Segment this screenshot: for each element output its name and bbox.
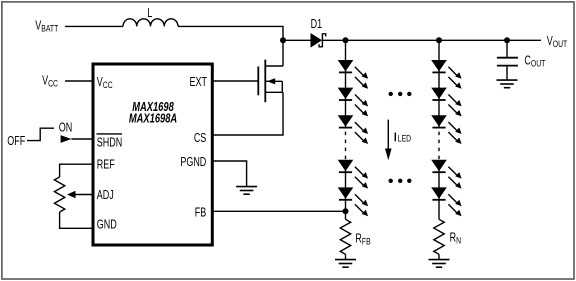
LED D3 bbox=[338, 88, 368, 117]
svg-text:MAX1698A: MAX1698A bbox=[129, 112, 177, 126]
resistor RFB bbox=[340, 219, 350, 254]
wire EXT to gate bbox=[213, 80, 258, 82]
IC U1 MAX1698 box bbox=[93, 64, 212, 245]
resistor RN bbox=[434, 219, 444, 254]
label ILED bbox=[394, 133, 396, 142]
arrow ILED bbox=[387, 120, 389, 151]
wire GND to potentiometer bbox=[60, 212, 92, 228]
wire ADJ wiper bbox=[75, 194, 93, 196]
LED D6 bbox=[338, 187, 368, 216]
svg-text:VCC: VCC bbox=[42, 74, 58, 89]
LED D9 bbox=[431, 115, 461, 144]
wire RFB to ground bbox=[345, 254, 347, 259]
wire RN to ground bbox=[438, 254, 440, 259]
LED D2 bbox=[338, 60, 368, 89]
transistor Q1 NMOS bbox=[257, 67, 259, 96]
ground string 1 bbox=[335, 260, 356, 268]
svg-text:CS: CS bbox=[194, 132, 206, 146]
node dot COUT junction bbox=[504, 37, 510, 43]
wire LED string 1 upper bbox=[345, 40, 347, 128]
svg-text:ON: ON bbox=[59, 121, 72, 135]
svg-text:VCC: VCC bbox=[97, 76, 113, 91]
LED D5 bbox=[338, 160, 368, 189]
dots upper ellipsis bbox=[389, 92, 393, 96]
ground string 2 bbox=[429, 260, 450, 268]
capacitor COUT bbox=[506, 40, 508, 57]
svg-text:VOUT: VOUT bbox=[547, 35, 567, 49]
svg-text:L: L bbox=[147, 7, 152, 21]
wire FB to LED string bbox=[213, 210, 346, 212]
ground COUT bbox=[497, 80, 518, 88]
node dot LED string 1 top bbox=[343, 37, 349, 43]
LED D4 bbox=[338, 115, 368, 144]
node dot LED string 2 top bbox=[436, 37, 442, 43]
svg-text:PGND: PGND bbox=[180, 156, 206, 170]
wire LED string 2 dashed bbox=[438, 132, 440, 160]
wire switch to SHDN bbox=[71, 138, 92, 140]
svg-text:OFF: OFF bbox=[7, 135, 25, 149]
svg-text:GND: GND bbox=[97, 218, 117, 232]
svg-text:VBATT: VBATT bbox=[35, 19, 58, 34]
svg-text:COUT: COUT bbox=[524, 54, 545, 68]
svg-text:EXT: EXT bbox=[190, 76, 208, 90]
switch SW1 off/on bbox=[27, 128, 54, 140]
svg-text:D1: D1 bbox=[311, 18, 322, 32]
inductor L bbox=[123, 19, 178, 27]
wire source to CS bbox=[213, 92, 283, 135]
ground PGND bbox=[236, 187, 257, 195]
svg-text:LED: LED bbox=[398, 133, 411, 143]
node dot FB junction bbox=[343, 208, 349, 214]
wire VBATT to inductor bbox=[65, 25, 123, 27]
wire REF to potentiometer bbox=[60, 164, 92, 177]
switch wiper arrow bbox=[61, 135, 72, 143]
svg-text:RN: RN bbox=[450, 231, 461, 246]
wire VCC to IC bbox=[65, 80, 92, 82]
wire LED string 1 dashed bbox=[345, 132, 347, 160]
wire PGND to ground bbox=[213, 161, 247, 187]
LED D10 bbox=[431, 160, 461, 189]
wire output rail bbox=[323, 39, 542, 41]
wire rail to diode anode bbox=[283, 39, 311, 41]
wire LED string 2 upper bbox=[438, 40, 440, 128]
svg-text:FB: FB bbox=[195, 206, 206, 220]
LED D11 bbox=[431, 187, 461, 216]
wire LED string 2 lower bbox=[438, 160, 440, 219]
LED D8 bbox=[431, 88, 461, 117]
potentiometer R1 bbox=[54, 177, 64, 212]
dots lower ellipsis bbox=[389, 179, 393, 183]
svg-text:SHDN: SHDN bbox=[97, 136, 122, 150]
node junction dot drain/rail bbox=[280, 37, 286, 43]
LED D7 bbox=[431, 60, 461, 89]
diode D1 bbox=[311, 33, 323, 48]
svg-text:REF: REF bbox=[97, 158, 115, 172]
wire inductor to top corner bbox=[178, 26, 283, 66]
svg-text:RFB: RFB bbox=[355, 232, 371, 247]
svg-text:ADJ: ADJ bbox=[97, 188, 114, 202]
wire LED string 1 lower bbox=[345, 160, 347, 219]
